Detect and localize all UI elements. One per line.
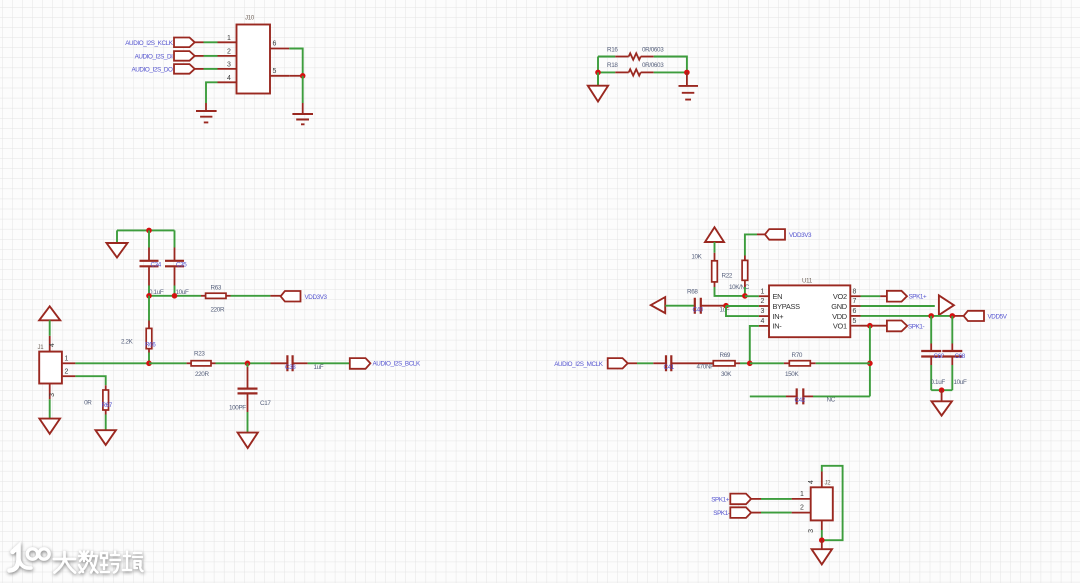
wire C68 bottom	[951, 357, 953, 365]
watermark logo	[10, 547, 144, 574]
svg-text:VO1: VO1	[833, 322, 847, 331]
wire cap C34 top lead	[148, 230, 150, 247]
svg-text:NC: NC	[827, 397, 836, 404]
svg-text:1: 1	[761, 288, 765, 295]
wire junction to ground	[302, 76, 304, 103]
svg-text:3: 3	[49, 393, 56, 397]
capacitor C38 series	[271, 362, 288, 364]
junction VDD left	[928, 313, 934, 319]
capacitor C68	[942, 351, 962, 357]
pin 7 GND	[850, 305, 860, 307]
wire C42 to right	[803, 395, 813, 397]
junction cap ground	[939, 387, 945, 393]
svg-text:VO2: VO2	[833, 292, 847, 301]
svg-text:VDD: VDD	[832, 312, 847, 321]
wire pin4 loop to pin3	[822, 466, 843, 540]
svg-text:2: 2	[65, 368, 69, 375]
pin 3 IN+	[759, 315, 769, 317]
resistor R22 10K	[712, 261, 718, 282]
svg-text:SPK1+: SPK1+	[711, 496, 730, 503]
wire R70 to right junction	[816, 362, 870, 364]
svg-text:C42: C42	[795, 397, 806, 404]
wire junction to R70	[750, 362, 784, 364]
pin 4 of J10	[218, 81, 237, 83]
ground triangle below caps	[932, 401, 952, 415]
wire R16 to right vertical	[654, 57, 687, 73]
svg-text:2.2K: 2.2K	[121, 339, 134, 346]
svg-text:150K: 150K	[785, 371, 799, 378]
wire MCLK flag to C41	[628, 362, 637, 364]
wire junction down to 2.2K	[148, 296, 150, 321]
wire pin2 to 0R	[75, 376, 105, 385]
svg-text:7: 7	[853, 298, 857, 305]
pin 4 IN-	[759, 325, 769, 327]
svg-text:SPK1+: SPK1+	[909, 293, 928, 300]
junction pin5	[300, 73, 306, 79]
wire cap C34 bottom lead	[148, 267, 150, 285]
svg-text:R70: R70	[792, 352, 803, 359]
svg-text:R68: R68	[687, 289, 698, 296]
pin 2 of J10	[218, 55, 237, 57]
resistor 10K/NC pullup	[742, 260, 748, 280]
svg-text:1: 1	[800, 491, 804, 498]
connector J10 body	[237, 25, 271, 94]
power flag VDD5V	[964, 311, 984, 321]
connector J1 body	[39, 352, 62, 384]
wire triangle to C40	[665, 305, 695, 307]
svg-text:J10: J10	[245, 16, 255, 22]
svg-text:IN+: IN+	[773, 312, 784, 321]
ground earth below pin5	[292, 114, 313, 124]
wire left junction to ground	[597, 72, 599, 85]
net flag AUDIO_I2S_DO	[174, 64, 195, 74]
svg-text:R67: R67	[102, 402, 113, 409]
svg-text:J2: J2	[825, 481, 832, 487]
ground triangle below J1	[39, 419, 60, 434]
junction C17	[245, 361, 251, 367]
net flag AUDIO_I2S_DI	[174, 51, 195, 61]
net flag AUDIO_I2S_KCLK	[174, 38, 195, 48]
svg-text:10K: 10K	[691, 254, 702, 261]
junction pin1	[742, 293, 748, 299]
wire flag2 to pin2	[195, 55, 204, 57]
resistor R69 30K	[713, 361, 735, 366]
pin 8 VO2	[850, 295, 860, 297]
net flag AUDIO_I2S_BCLK	[350, 358, 371, 369]
resistor R18	[615, 71, 628, 73]
svg-text:R66: R66	[145, 342, 156, 349]
pin 5 of J10	[270, 75, 289, 77]
wire junction down to C17	[247, 363, 249, 367]
svg-text:4: 4	[808, 480, 815, 484]
wire R18 to right junction	[654, 71, 687, 73]
wire C41 to R69	[671, 362, 713, 364]
svg-text:0R: 0R	[84, 400, 92, 407]
junction left	[595, 70, 601, 76]
wire pin7 to right triangle	[861, 305, 935, 307]
wire pullup bottom to junction	[744, 280, 746, 287]
svg-text:AUDIO_I2S_MCLK: AUDIO_I2S_MCLK	[554, 361, 603, 368]
wire junction to ground	[941, 390, 943, 401]
svg-text:4: 4	[227, 75, 231, 82]
svg-text:C38: C38	[285, 364, 296, 371]
svg-text:0R/0603: 0R/0603	[642, 47, 664, 54]
wire pin3 to junction	[821, 530, 823, 540]
svg-text:AUDIO_I2S_KCLK: AUDIO_I2S_KCLK	[125, 40, 173, 47]
svg-text:30K: 30K	[721, 371, 732, 378]
pin 1 of J10	[218, 41, 237, 43]
svg-text:10K/NC: 10K/NC	[729, 284, 750, 291]
junction feedback right	[867, 361, 873, 367]
svg-text:4: 4	[761, 318, 765, 325]
svg-text:6: 6	[273, 41, 277, 48]
junction mid rail left	[146, 293, 152, 299]
capacitor C34	[140, 261, 159, 267]
wire top-left drop	[116, 230, 118, 243]
resistor R63	[201, 295, 206, 297]
resistor R67 0R	[103, 390, 109, 410]
wire junction to ground	[821, 540, 823, 549]
wire top rail	[117, 229, 175, 231]
capacitor C40 series	[695, 298, 701, 314]
wire VDD cap branch right	[951, 316, 953, 344]
svg-text:J1: J1	[38, 345, 45, 351]
junction VDD right	[950, 313, 956, 319]
pin 2 BYPASS	[759, 305, 769, 307]
pin 2 of J2	[792, 512, 811, 514]
wire pin1 to rail	[75, 362, 149, 364]
ground earth below pin4	[196, 111, 217, 122]
junction top rail	[146, 228, 152, 234]
ground triangle left	[588, 86, 608, 102]
svg-text:VDD5V: VDD5V	[988, 313, 1008, 320]
svg-text:2: 2	[761, 298, 765, 305]
net flag SPK1- (U11)	[887, 321, 907, 332]
resistor R23	[187, 362, 192, 364]
wire R16 row	[598, 56, 615, 58]
pin 4 of J1 (top)	[49, 336, 51, 352]
IC U11 body	[769, 285, 850, 337]
junction mid rail right	[172, 293, 178, 299]
svg-text:100PF: 100PF	[229, 405, 246, 412]
wire C40 to bypass junction	[701, 305, 726, 307]
junction bypass	[723, 303, 729, 309]
wire junction to pin1	[745, 295, 759, 297]
pin 5 VO1	[850, 325, 860, 327]
svg-text:U11: U11	[802, 279, 813, 285]
pin 6 VDD	[850, 315, 860, 317]
svg-text:C35: C35	[176, 262, 187, 269]
wire R69 to junction	[735, 362, 740, 364]
svg-text:C68: C68	[955, 353, 966, 360]
pin 3 of J1 (bottom)	[49, 384, 51, 400]
wire rail to R23	[149, 362, 187, 364]
pin 1 of J1	[62, 362, 76, 364]
svg-text:C40: C40	[693, 306, 704, 313]
wire VDD cap branch left	[930, 316, 932, 344]
wire pin5 junction down	[869, 326, 871, 397]
junction IN-	[747, 361, 753, 367]
wire R22 to pin1 junction	[714, 282, 716, 287]
power triangle above R22	[705, 227, 724, 242]
svg-text:6: 6	[853, 308, 857, 315]
wire left vertical	[597, 57, 599, 86]
wire 2.2K bottom	[148, 349, 150, 353]
svg-text:10uF: 10uF	[954, 379, 967, 386]
pin 2 of J1	[62, 375, 76, 377]
svg-text:AUDIO_I2S_DO: AUDIO_I2S_DO	[131, 66, 173, 73]
svg-text:2: 2	[227, 49, 231, 56]
wire C17 to ground	[247, 394, 249, 412]
wire triangle to R22	[714, 242, 716, 253]
capacitor C42 NC	[797, 388, 804, 404]
ground triangle right (points right)	[939, 295, 954, 315]
svg-text:R18: R18	[607, 62, 618, 69]
svg-text:1uF: 1uF	[314, 364, 324, 371]
ground earth right	[679, 86, 699, 100]
svg-text:VDD3V3: VDD3V3	[789, 232, 812, 239]
capacitor C35	[165, 261, 184, 267]
svg-text:GND: GND	[831, 302, 847, 311]
svg-text:8: 8	[853, 288, 857, 295]
svg-text:C17: C17	[260, 400, 271, 407]
svg-text:10uF: 10uF	[176, 289, 189, 296]
wire triangle to pin4	[49, 320, 51, 336]
wire junction to pin2	[726, 305, 759, 307]
wire pin4 to ground	[206, 82, 218, 103]
svg-text:R23: R23	[194, 351, 205, 358]
wire pin5	[861, 325, 887, 327]
svg-text:3: 3	[761, 308, 765, 315]
wire pin6 to pin5 junction	[289, 49, 302, 76]
capacitor C17	[238, 389, 258, 394]
ground triangle below 0R	[96, 430, 116, 445]
svg-text:0.1uF: 0.1uF	[931, 379, 946, 386]
capacitor C60	[921, 351, 941, 357]
wire pin3 to ground	[49, 399, 51, 418]
power flag VDD3V3	[281, 291, 301, 302]
ground triangle top-left	[107, 243, 128, 258]
capacitor C41 series	[666, 355, 671, 371]
wire pullup top to VDD3V3	[744, 256, 746, 261]
svg-text:3: 3	[808, 529, 815, 533]
wire pin4 elbow down	[750, 326, 759, 363]
svg-text:R63: R63	[211, 285, 222, 292]
resistor R66 2.2K	[146, 328, 152, 348]
svg-text:1: 1	[227, 35, 231, 42]
wire right junction to ground	[686, 72, 688, 85]
pin 3 of J2 (bottom)	[821, 520, 823, 530]
wire C38 to BCLK flag	[308, 362, 350, 364]
svg-text:3: 3	[227, 62, 231, 69]
svg-text:EN: EN	[773, 292, 783, 301]
pin 1 of J2	[792, 498, 811, 500]
svg-text:220R: 220R	[195, 371, 209, 378]
svg-text:IN-: IN-	[773, 322, 783, 331]
junction right	[684, 70, 690, 76]
svg-text:C41: C41	[664, 364, 675, 371]
svg-text:AUDIO_I2S_DI: AUDIO_I2S_DI	[135, 53, 174, 60]
svg-text:220R: 220R	[211, 307, 225, 314]
svg-text:AUDIO_I2S_BCLK: AUDIO_I2S_BCLK	[373, 361, 421, 368]
svg-text:4: 4	[49, 343, 56, 347]
ground triangle left (points left)	[651, 297, 665, 313]
svg-text:470NF: 470NF	[697, 364, 715, 371]
svg-text:C34: C34	[151, 262, 162, 269]
junction main rail at 2.2K	[146, 361, 152, 367]
svg-text:0R/0603: 0R/0603	[642, 62, 664, 69]
wire cap bottom rail	[931, 389, 952, 391]
junction J2 ground	[819, 537, 825, 543]
wire cap C35 bottom lead	[174, 267, 176, 285]
wire flag1 to pin1	[195, 41, 204, 43]
wire mid rail	[149, 295, 201, 297]
power flag VDD3V3 (U11)	[765, 229, 785, 240]
resistor R70 150K	[784, 362, 789, 364]
net flag SPK1+ (U11)	[861, 295, 881, 297]
wire cap C35 top lead	[174, 230, 176, 247]
wire R18 row left	[598, 71, 615, 73]
ground triangle below C17	[238, 433, 258, 448]
svg-text:5: 5	[853, 318, 857, 325]
wire R23 to junction	[216, 362, 271, 364]
wire junction down to pin3	[726, 306, 759, 316]
ground triangle below J2	[812, 549, 832, 564]
svg-text:2: 2	[800, 505, 804, 512]
connector J2 body	[811, 487, 833, 520]
wire pin5	[289, 75, 302, 77]
wire SPK1- to pin2	[751, 512, 761, 514]
pin 6 of J10	[270, 48, 289, 50]
wire 0R to ground	[105, 410, 107, 415]
pin 3 of J10	[218, 68, 237, 70]
svg-text:5: 5	[273, 68, 277, 75]
svg-text:BYPASS: BYPASS	[773, 302, 801, 311]
svg-text:SPK1-: SPK1-	[713, 510, 730, 517]
svg-text:R22: R22	[722, 273, 733, 280]
wire C60 bottom	[930, 357, 932, 365]
svg-text:SPK1-: SPK1-	[908, 323, 925, 330]
wire R63 to VDD3V3	[231, 295, 271, 297]
power triangle above J1	[39, 306, 60, 320]
resistor R16	[615, 56, 628, 58]
pin 4 of J2 (top)	[821, 472, 823, 488]
wire flag3 to pin3	[195, 68, 204, 70]
svg-text:R16: R16	[607, 47, 618, 54]
wire SPK1+ to pin1	[751, 498, 761, 500]
svg-text:R69: R69	[720, 352, 731, 359]
wire bottom feedback rail	[750, 395, 786, 397]
svg-text:VDD3V3: VDD3V3	[305, 294, 328, 301]
wire pin6 VDD rail	[861, 315, 953, 317]
svg-text:1: 1	[65, 355, 69, 362]
pin 1 EN	[759, 295, 769, 297]
junction pin5	[867, 323, 873, 329]
